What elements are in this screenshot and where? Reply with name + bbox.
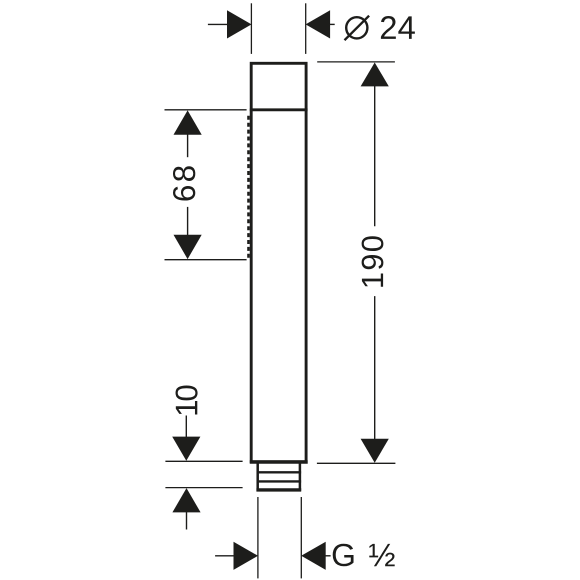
dimension 190 extension lines [317,62,396,463]
dimension 190 up arrow [361,63,389,87]
dimension 10 down arrow above [172,416,200,461]
dimension D24 diameter symbol [345,16,370,41]
dimension 68 down arrow [174,235,202,259]
dimension 10 extension lines [165,461,242,487]
dimension D24 value label 24 [381,16,415,39]
dimension D24 left arrow [208,10,252,38]
shower body outline [250,63,308,462]
dimension 68 value label [173,166,195,200]
dimension D24 right arrow [306,10,335,38]
dimension G1/2 left arrow [215,542,258,570]
spray face dashed line [247,116,250,259]
dimension G1/2 right arrow [301,542,330,570]
dimension 68 dimension line [187,134,189,237]
dimension 190 value label [362,236,384,286]
dimension 190 dimension line [374,85,376,440]
dimension 10 up arrow below [172,488,200,529]
head separator line [250,108,308,111]
dimension 10 value label [176,385,198,414]
thread connector [256,464,301,491]
dimension G1/2 value label G [333,544,354,567]
dimension 68 up arrow [174,110,202,134]
dimension G1/2 extension lines [258,497,301,578]
dimension D24 extension lines [251,3,305,54]
dimension 68 extension lines [165,110,247,260]
dimension 190 down arrow [361,439,389,463]
dimension G1/2 value label 1/2 [369,544,394,566]
